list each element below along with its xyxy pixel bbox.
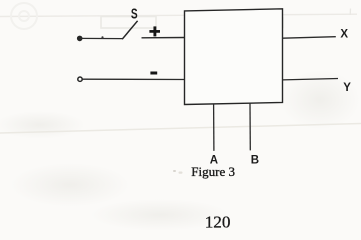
node: + input terminal (filled dot) [77, 36, 83, 42]
svg-text:120: 120 [205, 213, 231, 231]
switch S [122, 6, 137, 40]
black box (four-terminal network) U1 [185, 9, 283, 105]
wire: box to A terminal (vertical) [213, 104, 215, 151]
svg-text:S: S [131, 6, 138, 22]
svg-text:Figure 3: Figure 3 [191, 164, 235, 179]
svg-text:X: X [340, 29, 348, 41]
scan speckles (decorative) [173, 170, 183, 174]
label: - polarity [150, 72, 157, 75]
svg-text:Y: Y [343, 82, 351, 94]
wire: + terminal to switch pivot [79, 36, 122, 38]
wire: box to Y output [283, 79, 339, 80]
wire: box to X output [283, 37, 336, 39]
wire: box to B terminal (vertical) [249, 103, 251, 150]
label: + polarity [149, 26, 160, 36]
wire: - terminal to box [82, 78, 187, 80]
wire: switch to box (+ lead) [142, 37, 186, 39]
node: - input terminal (open circle) [78, 77, 82, 81]
svg-text:B: B [251, 154, 259, 166]
